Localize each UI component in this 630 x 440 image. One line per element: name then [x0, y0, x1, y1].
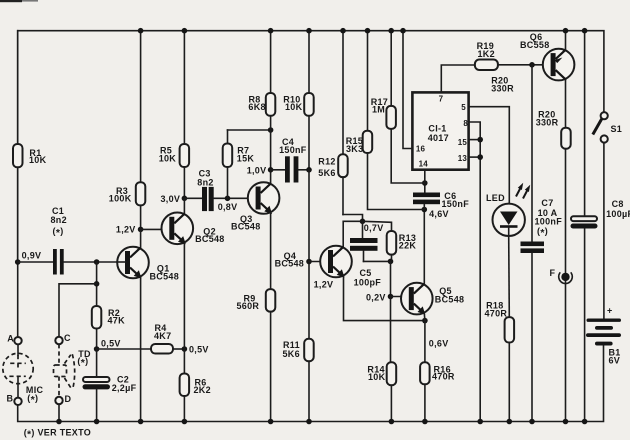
svg-text:3,0V: 3,0V	[161, 194, 181, 204]
node top rail R3	[138, 28, 144, 34]
svg-text:1,2V: 1,2V	[314, 280, 334, 290]
wire: 1,2V node down to Q1 collector	[140, 229, 142, 248]
wire: Q4 emitter down and right to Q5 emitter node	[344, 276, 425, 320]
wire: 3,0V down to Q2 collector	[183, 198, 185, 213]
node Q5 emitter	[422, 318, 428, 324]
wire: node down to R2 with TD tap	[96, 262, 98, 306]
node R6 ground	[182, 419, 188, 425]
svg-text:C: C	[64, 333, 71, 343]
wire: junction down to C7	[531, 65, 533, 242]
node top rail R17	[388, 28, 394, 34]
wire: tap to terminal C	[59, 284, 97, 337]
svg-text:6V: 6V	[609, 356, 621, 366]
svg-text:+: +	[607, 306, 613, 316]
LED	[486, 183, 530, 236]
wire: S1 to battery	[603, 143, 605, 319]
node 0,9V	[15, 250, 41, 265]
node 0,2V	[366, 292, 393, 302]
capacitor C5	[350, 238, 381, 288]
node top rail R5	[182, 28, 188, 34]
svg-text:0,6V: 0,6V	[429, 339, 449, 349]
node 3,0V	[161, 194, 188, 204]
capacitor C4	[279, 137, 307, 183]
svg-text:6K8: 6K8	[248, 102, 265, 112]
svg-text:3K3: 3K3	[346, 144, 363, 154]
node top rail Q6	[563, 28, 569, 34]
svg-text:8n2: 8n2	[51, 215, 67, 225]
terminal F	[550, 268, 573, 284]
node Q6 base / C7 junction	[529, 62, 535, 68]
label R20 330R upper (base resistor label)	[491, 76, 514, 94]
svg-text:0,2V: 0,2V	[366, 292, 386, 302]
node top rail R10	[306, 28, 312, 34]
svg-text:A: A	[7, 334, 14, 344]
node Q1 emitter ground	[138, 419, 144, 425]
svg-text:LED: LED	[486, 193, 505, 203]
svg-text:C7: C7	[541, 198, 553, 208]
svg-text:100µF: 100µF	[606, 209, 630, 219]
svg-text:C5: C5	[360, 268, 372, 278]
wire: junction down to Q3 collector	[270, 130, 272, 183]
resistor R9	[237, 289, 276, 421]
svg-text:0,5V: 0,5V	[101, 338, 121, 348]
wire: pin 16 to top rail	[403, 31, 412, 149]
capacitor C2 (electrolytic)	[83, 374, 137, 421]
resistor R14	[367, 297, 396, 422]
resistor R19	[475, 41, 543, 70]
wire: junction down to 0,2V node	[390, 261, 392, 296]
node R14 ground	[389, 419, 395, 425]
node Q1 base / R2 top	[94, 259, 100, 265]
node 0,5V left	[94, 338, 121, 352]
svg-text:330R: 330R	[491, 84, 514, 94]
svg-text:4K7: 4K7	[154, 331, 171, 341]
IC CI-1 4017	[412, 92, 468, 169]
capacitor C6	[413, 183, 469, 210]
wire: C8 branch from top rail	[584, 31, 586, 217]
wire: Q5 collector up to 4,6V node	[423, 210, 425, 284]
transistor Q6 (PNP)	[520, 32, 574, 81]
node pin15 junction	[477, 137, 483, 143]
resistor R4	[151, 323, 184, 353]
switch S1	[593, 112, 622, 142]
resistor R20	[536, 109, 571, 421]
node R20 ground	[563, 419, 569, 425]
svg-text:10K: 10K	[159, 153, 177, 163]
wire: Q6 collector down to R20	[565, 80, 567, 128]
node top rail pin16	[400, 28, 406, 34]
node 1,0V	[247, 166, 274, 176]
wire: C3 to Q3 base	[214, 197, 256, 199]
node R9 ground	[268, 419, 274, 425]
node 1,2V	[116, 225, 144, 235]
svg-text:4017: 4017	[428, 133, 449, 143]
node IC ground	[477, 419, 483, 425]
svg-text:150nF: 150nF	[442, 199, 470, 209]
wire: Q2 emitter down to 0,5V right node	[183, 243, 185, 349]
battery B1	[586, 306, 621, 366]
svg-text:2,2µF: 2,2µF	[112, 383, 137, 393]
resistor R5	[159, 31, 189, 199]
terminal B	[7, 394, 22, 405]
microphone MIC	[3, 344, 44, 406]
svg-text:CI-1: CI-1	[428, 123, 446, 133]
capacitor C7	[521, 198, 563, 422]
wire: 1,0V to C4	[271, 169, 285, 171]
svg-text:4,6V: 4,6V	[429, 209, 449, 219]
capacitor C1	[51, 206, 67, 275]
wire: pin 7 up and right to R19	[441, 65, 475, 92]
node 4,6V	[422, 207, 449, 219]
transducer TD	[54, 344, 91, 397]
svg-text:5K6: 5K6	[318, 168, 335, 178]
svg-text:BC548: BC548	[195, 234, 225, 244]
node D ground	[56, 419, 62, 425]
wire: pin 15 stub	[469, 139, 481, 141]
svg-text:0,9V: 0,9V	[22, 250, 42, 260]
svg-text:470R: 470R	[432, 371, 455, 381]
wire: R7 top to R8 line	[228, 129, 271, 131]
resistor R1	[13, 31, 47, 262]
resistor R16	[420, 321, 455, 422]
node top rail C8	[582, 28, 588, 34]
resistor R17	[371, 31, 396, 129]
svg-text:0,8V: 0,8V	[218, 202, 238, 212]
svg-text:22K: 22K	[399, 241, 417, 251]
svg-text:10K: 10K	[29, 155, 47, 165]
svg-text:13: 13	[458, 154, 468, 163]
wire: pin 13 stub	[469, 156, 481, 158]
wire: 0,7V node down to C5	[362, 221, 364, 238]
svg-text:1,2V: 1,2V	[116, 225, 136, 235]
transistor Q3	[231, 182, 279, 231]
wire: pin 14 up from junction	[424, 170, 426, 183]
svg-text:2K2: 2K2	[194, 385, 211, 395]
svg-text:10K: 10K	[285, 102, 303, 112]
wire: node to Q4 base	[309, 261, 329, 263]
node top rail R12	[340, 28, 346, 34]
resistor R12	[318, 31, 347, 215]
scan artifact top-left	[0, 0, 22, 2]
node C7 ground	[529, 419, 535, 425]
node R16 ground	[422, 419, 428, 425]
wire: R10 line down to Q4 base node	[308, 170, 310, 339]
resistor R7	[223, 130, 255, 198]
svg-text:BC548: BC548	[435, 295, 465, 305]
node pin13 junction	[477, 154, 483, 160]
wire: 0,9V node to C1	[18, 261, 53, 263]
transistor Q5	[401, 283, 464, 315]
node C2 ground	[94, 419, 100, 425]
capacitor C3	[197, 169, 213, 212]
transistor Q2	[162, 213, 225, 245]
wire: Q3 emitter to R9	[270, 213, 272, 289]
resistor R18	[485, 300, 515, 421]
wire: bottom ground rail	[17, 262, 19, 337]
svg-text:1,0V: 1,0V	[247, 166, 267, 176]
node TD tap	[94, 281, 100, 287]
svg-text:BC548: BC548	[275, 259, 305, 269]
node C6/pin14/R17 junction	[422, 180, 428, 186]
wire: C5 bottom to R13 bottom node	[364, 260, 391, 262]
capacitor C8 (electrolytic)	[571, 199, 630, 422]
terminal A	[7, 334, 22, 345]
svg-text:BC548: BC548	[150, 271, 180, 281]
wire: 3,0V to C3	[184, 197, 202, 199]
svg-text:0,7V: 0,7V	[364, 223, 384, 233]
wire: pin 5 right and down to LED	[469, 107, 510, 204]
transistor Q4	[275, 246, 352, 278]
svg-text:10K: 10K	[368, 372, 386, 382]
svg-text:BC548: BC548	[231, 222, 261, 232]
wire: C4 to R10 line	[298, 169, 309, 171]
wire: pins 8 15 13 common to ground	[469, 122, 481, 422]
svg-text:0,5V: 0,5V	[189, 344, 209, 354]
svg-text:F: F	[550, 268, 556, 278]
node C8 ground	[582, 419, 588, 425]
terminal C	[55, 333, 71, 344]
svg-text:B: B	[7, 394, 14, 404]
node R13/C5 junction	[388, 259, 394, 265]
svg-text:S1: S1	[611, 124, 623, 134]
wire: Q5 emitter stub	[423, 313, 426, 320]
wire: 0,7V node to R13 top	[363, 221, 392, 231]
svg-text:16: 16	[416, 145, 426, 154]
svg-text:150nF: 150nF	[279, 145, 307, 155]
svg-text:560R: 560R	[237, 301, 260, 311]
svg-text:8: 8	[463, 119, 468, 128]
resistor R8	[248, 31, 275, 130]
node R11 ground	[306, 419, 312, 425]
wire: 1,2V node to Q2 base	[141, 228, 170, 230]
wire: 4,6V node left to R15	[368, 153, 425, 210]
resistor R2	[92, 306, 125, 349]
wire: R12 jog to 0,7V node	[343, 215, 363, 222]
resistor R3	[109, 31, 146, 230]
wire: C1 to Q1 base	[64, 261, 126, 263]
wire: R4 horizontal run	[97, 348, 151, 350]
resistor R10	[283, 31, 314, 170]
wire: top supply rail	[18, 31, 604, 262]
transistor Q1	[117, 247, 179, 282]
svg-text:8n2: 8n2	[197, 177, 213, 187]
svg-text:15: 15	[458, 138, 468, 147]
wire: junction left to R17	[391, 129, 425, 183]
svg-text:470R: 470R	[485, 308, 508, 318]
node top rail R15	[365, 28, 371, 34]
svg-text:BC558: BC558	[520, 40, 550, 50]
wire: Q1 emitter to ground	[140, 277, 142, 421]
svg-text:1M: 1M	[372, 104, 385, 114]
svg-text:100K: 100K	[109, 193, 132, 203]
svg-text:C8: C8	[612, 199, 624, 209]
svg-text:47K: 47K	[108, 316, 126, 326]
node R18 ground	[507, 419, 513, 425]
resistor R6	[180, 349, 211, 422]
svg-text:15K: 15K	[237, 154, 255, 164]
wire: LED to R18	[508, 236, 511, 317]
resistor R13	[387, 231, 417, 261]
svg-text:14: 14	[419, 160, 429, 169]
wire: 0,7V node to Q4 collector	[343, 221, 362, 246]
node top rail R8	[268, 28, 274, 34]
resistor R15	[346, 31, 373, 154]
node 0,7V	[360, 219, 384, 233]
node 0,5V right	[182, 344, 209, 354]
resistor R11	[283, 339, 314, 422]
svg-text:7: 7	[439, 95, 444, 104]
svg-text:100pF: 100pF	[354, 278, 382, 288]
svg-text:1K2: 1K2	[478, 49, 495, 59]
node C4/R10 junction	[306, 167, 312, 173]
svg-text:R12: R12	[318, 157, 335, 167]
node R7/R8 junction	[268, 127, 274, 133]
svg-text:5K6: 5K6	[283, 349, 300, 359]
wire: 0,2V to Q5 base	[391, 296, 410, 298]
svg-text:330R: 330R	[536, 117, 559, 127]
wire: Q6 emitter to top rail	[565, 31, 567, 50]
node 0,8V	[218, 196, 238, 212]
svg-text:5: 5	[461, 103, 466, 112]
wire: 0,5V node down to C2	[96, 349, 98, 377]
svg-text:D: D	[65, 394, 72, 404]
node Q4 base	[306, 259, 312, 265]
terminal D	[55, 394, 71, 422]
